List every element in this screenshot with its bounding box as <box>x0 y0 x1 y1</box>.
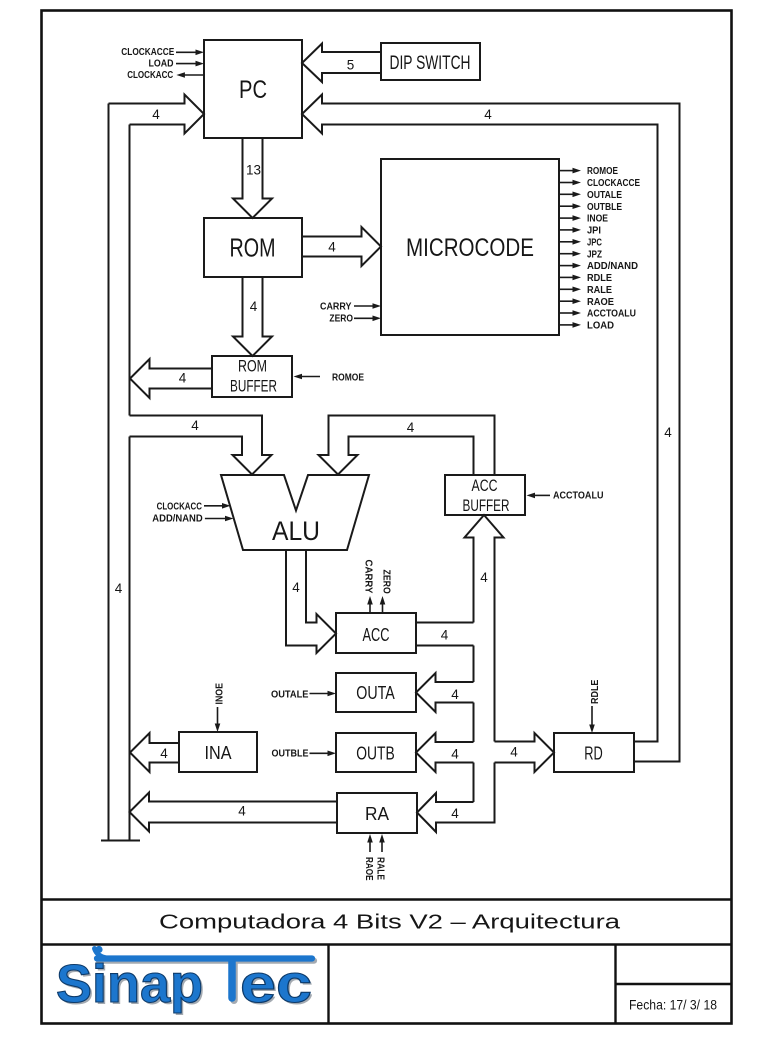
svg-text:13: 13 <box>246 163 261 178</box>
signal RAOE into RA <box>363 834 374 881</box>
signal RALE out of MICROCODE <box>559 285 612 296</box>
signal ACCTOALU into ACC BUFFER <box>527 491 604 502</box>
svg-text:4: 4 <box>480 570 488 585</box>
signal JPI out of MICROCODE <box>559 226 601 237</box>
svg-text:RDLE: RDLE <box>590 679 601 704</box>
svg-text:PC: PC <box>239 76 267 104</box>
svg-text:DIP SWITCH: DIP SWITCH <box>390 53 471 74</box>
svg-text:4: 4 <box>664 425 672 440</box>
svg-text:4: 4 <box>451 806 459 821</box>
svg-text:OUTA: OUTA <box>356 683 395 703</box>
signal ZERO into MICROCODE <box>329 314 381 325</box>
svg-text:CLOCKACC: CLOCKACC <box>157 501 202 512</box>
signal RAOE out of MICROCODE <box>559 297 614 308</box>
block ROM <box>204 218 302 277</box>
bus PC to ROM <box>233 138 272 218</box>
svg-text:4: 4 <box>328 240 336 255</box>
svg-text:ROMOE: ROMOE <box>332 373 364 384</box>
svg-text:4: 4 <box>510 745 518 760</box>
svg-text:CARRY: CARRY <box>320 302 352 313</box>
block ALU <box>221 475 369 550</box>
block INA <box>179 732 257 772</box>
svg-text:Fecha: 17/ 3/ 18: Fecha: 17/ 3/ 18 <box>629 998 717 1013</box>
svg-text:OUTBLE: OUTBLE <box>272 749 309 760</box>
svg-text:OUTBLE: OUTBLE <box>587 202 622 213</box>
svg-text:4: 4 <box>250 299 258 314</box>
svg-text:ALU: ALU <box>272 516 320 546</box>
wire channel left edge segment <box>473 646 475 683</box>
signal OUTBLE out of MICROCODE <box>559 202 622 213</box>
bus ACC to distribution channel <box>416 623 474 646</box>
svg-text:ACCTOALU: ACCTOALU <box>553 491 604 502</box>
signal ROMOE into ROM BUFFER <box>294 373 365 384</box>
svg-text:ACC: ACC <box>472 477 498 495</box>
svg-text:Sinap: Sinap <box>56 954 203 1014</box>
signal ZERO out of ACC <box>380 570 392 614</box>
logo SinapTec <box>56 946 314 1016</box>
bus ROM to MICROCODE <box>302 227 381 266</box>
svg-text:RAOE: RAOE <box>363 857 374 881</box>
signal ADD/NAND into ALU <box>152 514 233 525</box>
signal ADD/NAND out of MICROCODE <box>559 261 638 272</box>
svg-text:BUFFER: BUFFER <box>463 497 510 515</box>
svg-text:CARRY: CARRY <box>363 560 374 594</box>
svg-text:RAOE: RAOE <box>587 297 614 308</box>
signal RDLE out of MICROCODE <box>559 273 612 284</box>
bus channel to OUTB <box>416 733 474 772</box>
svg-text:RD: RD <box>584 744 603 764</box>
svg-text:4: 4 <box>238 804 246 819</box>
bus RD to PC (right trunk) <box>302 95 680 762</box>
signal INOE out of MICROCODE <box>559 214 608 225</box>
bus ROM to ROM BUFFER <box>233 277 272 356</box>
signal RALE into RA <box>375 834 386 880</box>
bus left trunk with arrow into PC <box>101 95 204 841</box>
svg-text:ROM: ROM <box>238 358 267 376</box>
bus channel to OUTA <box>416 673 474 712</box>
svg-text:BUFFER: BUFFER <box>230 378 277 396</box>
svg-text:4: 4 <box>451 747 459 762</box>
svg-text:ROMOE: ROMOE <box>587 166 618 177</box>
block MICROCODE <box>381 159 559 335</box>
signal CLOCKACC out of PC <box>127 70 204 81</box>
bus ALU to ACC <box>286 550 336 653</box>
bus left trunk to ALU input 1 <box>130 416 272 475</box>
block DIP SWITCH <box>381 43 480 80</box>
bus channel to RA <box>417 763 495 833</box>
bus INA to left trunk <box>130 733 179 772</box>
signal CLOCKACCE into PC <box>121 47 204 58</box>
signal CLOCKACC into ALU <box>157 501 231 512</box>
bus ROM BUFFER to left trunk <box>130 359 212 398</box>
block OUTA <box>336 673 416 712</box>
svg-text:5: 5 <box>347 58 355 73</box>
svg-text:ACCTOALU: ACCTOALU <box>587 309 636 320</box>
svg-text:4: 4 <box>152 107 160 122</box>
svg-text:MICROCODE: MICROCODE <box>406 234 534 262</box>
svg-text:4: 4 <box>292 580 300 595</box>
svg-text:ec: ec <box>240 954 312 1014</box>
wire channel left edge segment <box>473 703 475 743</box>
bus channel up-arrow into ACC BUFFER <box>465 515 504 742</box>
signal JPZ out of MICROCODE <box>559 249 602 260</box>
signal JPC out of MICROCODE <box>559 237 602 248</box>
bus channel to RD <box>495 733 555 772</box>
block OUTB <box>336 733 416 772</box>
svg-text:RALE: RALE <box>587 285 612 296</box>
signal CLOCKACCE out of MICROCODE <box>559 178 640 189</box>
svg-text:Computadora 4 Bits V2 – Arquit: Computadora 4 Bits V2 – Arquitectura <box>159 912 621 934</box>
bus DIP SWITCH to PC <box>302 44 381 83</box>
svg-text:4: 4 <box>451 687 459 702</box>
svg-text:ADD/NAND: ADD/NAND <box>152 514 202 525</box>
block ROM BUFFER <box>212 356 292 397</box>
signal ROMOE out of MICROCODE <box>559 166 618 177</box>
svg-text:RALE: RALE <box>375 857 386 880</box>
block ACC BUFFER <box>445 475 525 515</box>
wire channel left edge segment <box>473 763 475 803</box>
bus ACC BUFFER to ALU input 2 <box>319 416 495 476</box>
signal ACCTOALU out of MICROCODE <box>559 309 636 320</box>
svg-text:4: 4 <box>115 581 123 596</box>
svg-text:OUTALE: OUTALE <box>587 190 622 201</box>
svg-text:RDLE: RDLE <box>587 273 612 284</box>
svg-text:4: 4 <box>160 746 168 761</box>
svg-text:JPZ: JPZ <box>587 249 602 260</box>
svg-text:INOE: INOE <box>215 683 226 705</box>
svg-text:JPC: JPC <box>587 237 602 248</box>
svg-text:OUTB: OUTB <box>356 744 395 764</box>
block ACC <box>336 613 416 653</box>
svg-text:JPI: JPI <box>587 226 601 237</box>
svg-text:LOAD: LOAD <box>149 59 174 70</box>
svg-text:ADD/NAND: ADD/NAND <box>587 261 638 272</box>
svg-text:4: 4 <box>441 628 449 643</box>
svg-text:INOE: INOE <box>587 214 608 225</box>
svg-text:RA: RA <box>365 804 389 824</box>
signal INOE into INA <box>215 683 226 732</box>
svg-text:CLOCKACCE: CLOCKACCE <box>121 47 174 58</box>
svg-text:ZERO: ZERO <box>329 314 353 325</box>
signal RDLE into RD <box>589 679 601 733</box>
svg-text:OUTALE: OUTALE <box>271 689 309 700</box>
svg-text:INA: INA <box>205 743 232 763</box>
signal CARRY out of ACC <box>363 560 374 614</box>
svg-text:4: 4 <box>484 107 492 122</box>
signal LOAD into PC <box>149 59 205 70</box>
svg-text:CLOCKACC: CLOCKACC <box>127 70 173 81</box>
svg-text:ZERO: ZERO <box>381 570 392 594</box>
svg-text:4: 4 <box>407 420 415 435</box>
svg-text:4: 4 <box>179 371 187 386</box>
signal LOAD out of MICROCODE <box>559 321 614 332</box>
block RD <box>554 733 634 772</box>
svg-text:CLOCKACCE: CLOCKACCE <box>587 178 640 189</box>
signal OUTBLE into OUTB <box>272 749 337 760</box>
signal CARRY into MICROCODE <box>320 302 381 313</box>
svg-text:LOAD: LOAD <box>587 321 614 332</box>
svg-text:4: 4 <box>191 418 199 433</box>
signal OUTALE into OUTA <box>271 689 336 700</box>
svg-text:ACC: ACC <box>363 625 390 645</box>
title block dividers and date <box>329 945 733 1024</box>
svg-text:ROM: ROM <box>230 235 276 263</box>
title bar <box>42 900 733 945</box>
block PC <box>204 40 302 138</box>
signal OUTALE out of MICROCODE <box>559 190 622 201</box>
bus RA to left trunk <box>130 793 338 832</box>
block RA <box>337 793 417 833</box>
